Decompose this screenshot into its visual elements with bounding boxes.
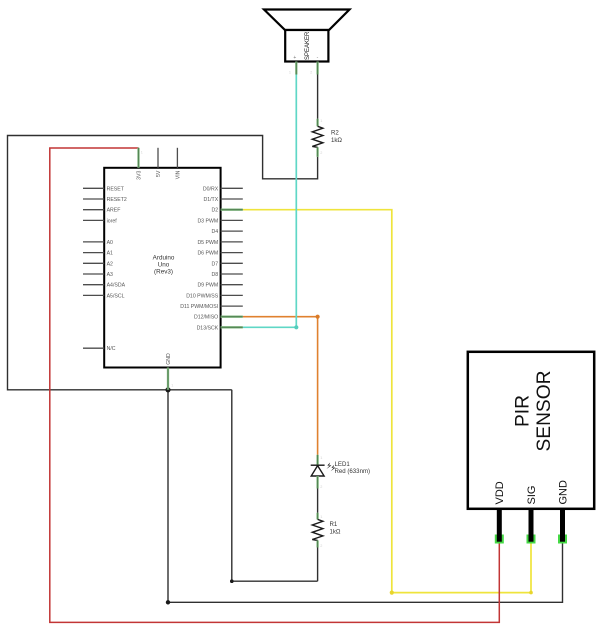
wire LED bottom to R1 top (black) — [317, 489, 319, 513]
speaker pin leg - (connected, green) — [316, 62, 318, 75]
svg-text:2: 2 — [310, 71, 312, 75]
wire GND branch: Arduino GND pin down and right to PIR GND — [168, 390, 563, 603]
svg-text:A4/SDA: A4/SDA — [107, 283, 126, 289]
svg-text:GND: GND — [557, 480, 569, 505]
pin RESET2 — [83, 198, 104, 200]
LED1 triangle — [311, 466, 324, 476]
pin AREF — [83, 209, 104, 211]
wire orange: Arduino D12/MISO to LED1 anode — [243, 317, 318, 455]
pin D5 PWM — [221, 241, 243, 243]
LED1 top leg (green) — [316, 455, 318, 465]
svg-text:PIR: PIR — [513, 395, 534, 427]
resistor R1 zigzag — [312, 519, 323, 540]
svg-text:D3 PWM: D3 PWM — [197, 218, 218, 224]
svg-text:D2: D2 — [212, 208, 219, 214]
svg-text:1kΩ: 1kΩ — [331, 137, 342, 144]
svg-text:D9 PWM: D9 PWM — [197, 283, 218, 289]
bendpoint dot R1 bottom rail corner — [230, 579, 234, 583]
svg-text:ioref: ioref — [107, 218, 118, 224]
svg-text:SENSOR: SENSOR — [534, 370, 555, 451]
svg-text:D13/SCK: D13/SCK — [197, 325, 219, 331]
resistor R1 top leg (green) — [316, 513, 318, 520]
pin D10 PWM/SS — [221, 294, 243, 296]
svg-text:D7: D7 — [212, 261, 219, 267]
yellow bendpoint dot — [529, 591, 533, 595]
pin D1/TX — [221, 198, 243, 200]
wire GND net black: R2 bottom to left rail to bottom node — [8, 136, 318, 390]
pin D13/SCK (connected, green) — [221, 326, 243, 328]
wire yellow: Arduino D2 to PIR SIG — [243, 210, 531, 593]
pin D4 — [221, 230, 243, 232]
orange bendpoint dot — [316, 315, 320, 319]
svg-text:2: 2 — [320, 544, 322, 548]
left pin labels — [107, 186, 127, 352]
arduino U1 body — [104, 168, 220, 368]
pin A0 — [83, 241, 104, 243]
svg-text:1: 1 — [320, 456, 322, 460]
svg-text:N/C: N/C — [107, 346, 116, 352]
pin D0/RX — [221, 187, 243, 189]
pin D11 PWM/MOSI — [221, 305, 243, 307]
wire R1 bottom to GND rail (black) — [317, 548, 319, 582]
junction node at Arduino GND / rail — [165, 387, 170, 392]
pin A5/SCL — [83, 294, 104, 296]
svg-text:D4: D4 — [212, 229, 219, 235]
right pin labels — [180, 186, 218, 331]
pin D2 (connected, green) — [221, 209, 243, 211]
svg-text:A3: A3 — [107, 272, 113, 278]
arduino pin VIN — [176, 148, 178, 168]
svg-text:D5 PWM: D5 PWM — [197, 240, 218, 246]
svg-text:D8: D8 — [212, 272, 219, 278]
LED1 bottom leg (green) — [316, 476, 318, 489]
pin ioref — [83, 219, 104, 221]
svg-text:VDD: VDD — [494, 481, 506, 504]
right pin stubs — [221, 188, 243, 327]
speaker SP1 horn — [264, 10, 350, 31]
junction node at bottom rail — [166, 600, 170, 604]
PIR pin VDD — [497, 509, 502, 542]
pin D6 PWM — [221, 252, 243, 254]
yellow bendpoint dot — [390, 591, 394, 595]
PIR sensor module body — [468, 352, 594, 509]
svg-text:1: 1 — [320, 515, 322, 519]
wire cyan: speaker + pin to Arduino D13/SCK — [243, 75, 296, 328]
wire speaker right pin to R2 top (black) — [317, 75, 319, 119]
LED1 emission arrows — [327, 463, 332, 470]
svg-text:R2: R2 — [331, 129, 339, 136]
pin A3 — [83, 273, 104, 275]
svg-text:VIN: VIN — [176, 170, 182, 179]
svg-text:2: 2 — [320, 485, 322, 489]
faint terminal number marks — [141, 71, 323, 548]
svg-text:A0: A0 — [107, 240, 113, 246]
resistor R1 bottom leg (green) — [316, 540, 318, 547]
svg-text:AREF: AREF — [107, 208, 121, 214]
svg-text:(Rev3): (Rev3) — [154, 269, 173, 276]
LED1 cathode bar — [311, 464, 325, 466]
svg-text:3V3: 3V3 — [137, 170, 143, 179]
PIR pad VDD (green) — [495, 535, 504, 544]
svg-text:A2: A2 — [107, 261, 113, 267]
svg-text:A1: A1 — [107, 251, 113, 257]
svg-text:1: 1 — [171, 384, 173, 388]
svg-text:+: + — [293, 55, 296, 61]
svg-text:RESET2: RESET2 — [107, 197, 127, 203]
speaker pin leg + (connected, green) — [295, 62, 297, 75]
svg-text:1: 1 — [289, 71, 291, 75]
pin D9 PWM — [221, 284, 243, 286]
pin A4/SDA — [83, 284, 104, 286]
pin D3 PWM — [221, 219, 243, 221]
svg-text:RESET: RESET — [107, 186, 125, 192]
resistor R2 zigzag — [312, 126, 323, 147]
arduino pin 3V3 (connected, green leg) — [137, 148, 139, 168]
arduino pin GND (connected, green leg) — [167, 368, 169, 390]
wire GND branch to R1 bottom — [232, 390, 318, 581]
PIR pin SIG — [529, 509, 534, 542]
svg-text:D0/RX: D0/RX — [203, 186, 219, 192]
arduino pin 5V — [157, 148, 159, 168]
speaker SP1 body — [285, 30, 328, 62]
pin RESET — [83, 187, 104, 189]
svg-text:R1: R1 — [330, 521, 338, 528]
left pin stubs — [83, 188, 104, 348]
PIR pad GND (green) — [558, 535, 567, 544]
pin D12/MISO (connected, green) — [221, 316, 243, 318]
svg-text:D1/TX: D1/TX — [203, 197, 218, 203]
svg-text:LED1: LED1 — [335, 461, 351, 468]
pin A2 — [83, 262, 104, 264]
pin D8 — [221, 273, 243, 275]
svg-text:2: 2 — [320, 151, 322, 155]
svg-text:1: 1 — [320, 119, 322, 123]
svg-text:D6 PWM: D6 PWM — [197, 251, 218, 257]
PIR pin GND — [560, 509, 565, 542]
pin N/C — [83, 347, 104, 349]
svg-text:Arduino: Arduino — [153, 255, 175, 262]
cyan bendpoint dot — [294, 325, 298, 329]
resistor R2 top leg (green) — [316, 119, 318, 127]
svg-text:1: 1 — [141, 151, 143, 155]
resistor R2 bottom leg (green) — [316, 147, 318, 157]
svg-text:5V: 5V — [156, 170, 162, 177]
wire red: Arduino 3V3 to PIR VDD — [50, 148, 500, 622]
pin D7 — [221, 262, 243, 264]
svg-text:GND: GND — [166, 353, 172, 365]
svg-text:1kΩ: 1kΩ — [330, 529, 341, 536]
svg-text:SPEAKER: SPEAKER — [305, 31, 311, 60]
PIR pad SIG (green) — [527, 535, 536, 544]
svg-text:A5/SCL: A5/SCL — [107, 293, 125, 299]
svg-text:D12/MISO: D12/MISO — [194, 315, 218, 321]
svg-text:D10 PWM/SS: D10 PWM/SS — [186, 293, 219, 299]
pin A1 — [83, 252, 104, 254]
svg-text:Red (633nm): Red (633nm) — [335, 468, 371, 475]
svg-text:SIG: SIG — [526, 486, 538, 505]
connected pin leg dark cores — [139, 62, 318, 548]
svg-text:D11 PWM/MOSI: D11 PWM/MOSI — [180, 304, 218, 310]
